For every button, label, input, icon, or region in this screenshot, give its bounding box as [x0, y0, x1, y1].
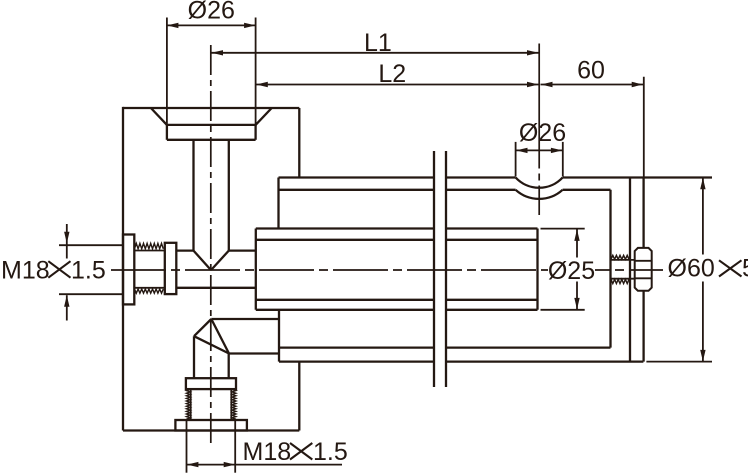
vertical centerline left port [210, 45, 212, 448]
outer shell Ø60 [279, 178, 713, 362]
svg-text:60: 60 [577, 57, 605, 85]
dimension Ø26 socket [516, 119, 567, 177]
main horizontal centerline [111, 269, 663, 271]
svg-text:5: 5 [742, 254, 748, 282]
dimension 60 [541, 57, 644, 177]
bottom stud threads M18 [186, 389, 236, 420]
dimension M18x1.5 bottom [187, 420, 348, 473]
branch socket saddle arcs [516, 178, 563, 199]
countersunk funnel inlet [151, 108, 272, 140]
svg-text:M18: M18 [1, 256, 50, 284]
svg-text:1.5: 1.5 [313, 438, 348, 466]
mounting plate [434, 151, 446, 387]
left flange plate [123, 235, 134, 305]
inner tube Ø25 [256, 229, 538, 310]
svg-text:Ø26: Ø26 [519, 119, 566, 147]
dimension Ø60x5 [665, 178, 748, 362]
svg-text:Ø26: Ø26 [188, 0, 235, 25]
valve cone [194, 251, 229, 271]
svg-text:Ø60: Ø60 [668, 254, 715, 282]
dimension M18x1.5 left [1, 224, 123, 321]
bottom flange [186, 378, 236, 389]
left hex body [165, 243, 177, 294]
funnel stem tube [194, 140, 229, 251]
svg-text:M18: M18 [243, 438, 292, 466]
dimension L1 [212, 29, 539, 57]
svg-text:Ø25: Ø25 [548, 257, 595, 285]
svg-text:L1: L1 [364, 29, 392, 57]
socket centerline [538, 44, 540, 216]
svg-text:L2: L2 [378, 60, 406, 88]
left stud threads M18 [134, 243, 165, 293]
right stud threads [611, 255, 635, 283]
end plate [630, 178, 644, 362]
dimension L2 [256, 60, 538, 88]
left port bore [176, 251, 256, 288]
dimension Ø25 [541, 229, 596, 310]
shell inner end wall [609, 190, 611, 348]
bottom collar nut [175, 420, 247, 431]
bottom elbow passage [194, 319, 279, 378]
right hex nut [635, 248, 652, 291]
svg-text:1.5: 1.5 [71, 256, 106, 284]
left housing box [123, 107, 299, 431]
dimension Ø26 top [167, 0, 256, 125]
